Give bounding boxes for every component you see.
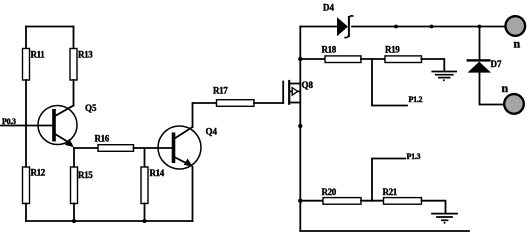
wire D7 to connector n lower [480,73,504,105]
wire Q5 emitter node down to R15 [73,148,75,167]
wire top-left rail [26,26,74,28]
wire P1.3 stub [372,159,405,201]
svg-text:P1.3: P1.3 [407,152,421,161]
svg-text:R13: R13 [78,50,93,60]
wire rail to R18 [300,58,325,60]
resistor R19 [385,45,422,63]
resistor R12 [23,167,46,204]
wire down to D7 [479,27,481,60]
node junction D7 branch [478,25,482,29]
ground bottom [432,214,457,224]
node junction R15 bottom [72,219,76,223]
svg-text:n: n [502,81,509,95]
svg-text:Q5: Q5 [85,103,97,113]
svg-text:R19: R19 [385,45,400,55]
resistor R11 [23,49,46,81]
wire R13 bottom to collector node [73,80,75,106]
diode D4 [323,3,353,38]
wire bottom-left rail [26,220,193,222]
wire R16 to Q4 base [134,147,174,149]
svg-text:D7: D7 [491,59,502,69]
node dot on top wire [394,25,398,29]
connector n top [506,16,526,50]
wire P0.3 to Q5 base [1,125,54,127]
node junction R20 [298,199,302,203]
node junction R14 bottom [143,219,147,223]
resistor R17 [213,86,254,107]
svg-text:n: n [514,37,521,51]
wire top rail to D4 [300,26,337,28]
svg-text:R16: R16 [95,134,110,144]
wire R15 to bottom rail [73,204,75,222]
wire main vertical rail [299,27,301,232]
diode D7 [467,59,502,73]
wire R12 to bottom rail [25,204,27,222]
resistor R16 [95,134,134,152]
wire P1.2 stub [372,59,407,106]
node dot on top wire [430,25,434,29]
wire R14 to bottom rail [144,204,146,222]
resistor R20 [322,187,362,204]
resistor R14 [141,167,165,204]
connector n lower [502,81,524,114]
wire R13 top stub [73,27,75,49]
svg-text:R14: R14 [150,168,165,178]
wire emitter node to R16 [74,147,98,149]
wire node to R14 [144,148,146,167]
svg-text:P1.2: P1.2 [409,95,423,104]
resistor R15 [71,167,94,204]
svg-text:R11: R11 [31,50,46,60]
wire R19 to ground [422,59,445,71]
node junction dot on rail [298,124,302,128]
wire Q4 collector up to R17 [193,103,217,127]
svg-text:R15: R15 [78,170,93,180]
transistor Q8 (MOSFET) [283,80,313,104]
wire R18 to R19 [361,58,385,60]
wire D4 to connector n [352,26,505,28]
ground top [432,72,456,82]
wire Q4 emitter down to bottom rail [192,167,194,221]
svg-text:D4: D4 [323,3,334,13]
svg-text:R17: R17 [213,86,228,96]
wire R20 to R21 [361,200,384,202]
svg-text:R20: R20 [322,187,337,197]
wire R21 to ground [422,201,446,213]
resistor R13 [70,49,93,81]
wire rail to R20 [300,200,323,202]
wire R11 top stub [25,27,27,49]
resistor R21 [383,187,422,204]
svg-text:R12: R12 [31,168,46,178]
svg-text:Q4: Q4 [206,127,218,137]
svg-text:R18: R18 [322,45,337,55]
node junction R18 [298,57,302,61]
wire R11 bottom to R12 [25,80,27,167]
wire R17 to gate [254,102,283,104]
wire bottom-right rail [300,230,469,232]
svg-text:Q8: Q8 [302,80,314,90]
resistor R18 [322,45,362,63]
svg-text:R21: R21 [383,187,398,197]
transistor Q5 [38,103,97,147]
transistor Q4 [158,126,218,169]
